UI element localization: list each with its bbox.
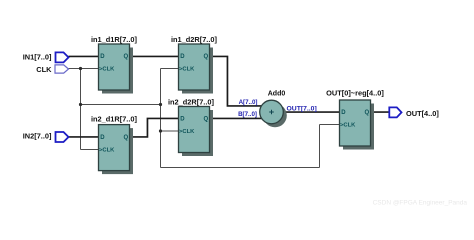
wire CLK net: vertical rise x=319.5 <box>319 125 321 168</box>
wire bus IN1 to in1_d1R.D <box>69 55 99 57</box>
svg-text:OUT[7..0]: OUT[7..0] <box>287 106 317 113</box>
wire CLK net: vertical trunk x=160 <box>160 69 162 168</box>
svg-text:IN1[7..0]: IN1[7..0] <box>23 52 52 61</box>
wire bus in1_d1R.Q to in1_d2R.D <box>130 55 179 57</box>
node junction CLK at (160,131) <box>159 129 162 132</box>
svg-text:Q: Q <box>365 110 370 116</box>
svg-text:D: D <box>341 110 346 116</box>
svg-text:Q: Q <box>204 54 209 60</box>
svg-text:Add0: Add0 <box>268 91 286 98</box>
svg-text:>CLK: >CLK <box>99 67 115 73</box>
svg-text:A[7..0]: A[7..0] <box>239 99 258 106</box>
register in2_d2R[7..0] <box>179 107 214 157</box>
wire CLK net: into in2_d2R CLK <box>161 130 179 132</box>
svg-text:CSDN @FPGA Engineer_Panda: CSDN @FPGA Engineer_Panda <box>373 200 468 207</box>
wire CLK net: bottom run y=167.5 <box>161 167 320 169</box>
wire CLK net: vertical trunk x=80 down to in2_d1R <box>80 69 82 150</box>
node junction CLK at (80,104) <box>79 103 82 106</box>
wire bus in1_d2R.Q to Add0.A <box>210 56 262 105</box>
register in1_d1R[7..0] <box>99 44 134 94</box>
svg-text:in1_d2R[7..0]: in1_d2R[7..0] <box>171 35 218 44</box>
svg-text:OUT[4..0]: OUT[4..0] <box>406 109 439 118</box>
node junction CLK at (80,69) <box>79 67 82 70</box>
svg-text:>CLK: >CLK <box>179 67 195 73</box>
wire bus in2_d1R.Q to in2_d2R.D (jog) <box>130 118 179 137</box>
svg-text:CLK: CLK <box>36 65 52 74</box>
port input IN1[7..0] <box>56 52 69 62</box>
wire CLK net: into OUT reg CLK <box>320 124 340 126</box>
node junction CLK at (160,104) <box>159 103 162 106</box>
svg-text:D: D <box>100 135 105 141</box>
port input IN2[7..0] <box>56 132 69 142</box>
svg-text:>CLK: >CLK <box>340 123 356 129</box>
register in2_d1R[7..0] <box>99 125 134 175</box>
adder Add0 <box>260 100 287 127</box>
svg-text:IN2[7..0]: IN2[7..0] <box>23 132 52 141</box>
svg-text:in2_d1R[7..0]: in2_d1R[7..0] <box>91 114 138 123</box>
wire CLK net: horizontal branch y=104 <box>81 104 161 106</box>
svg-text:Q: Q <box>124 135 129 141</box>
wire CLK net: into in1_d2R CLK <box>161 68 179 70</box>
register OUT[0]~reg[4..0] <box>340 100 375 150</box>
svg-text:>CLK: >CLK <box>179 129 195 135</box>
svg-text:>CLK: >CLK <box>99 148 115 154</box>
wire CLK net: pentagon to in1_d1R CLK <box>69 68 99 70</box>
svg-text:B[7..0]: B[7..0] <box>238 111 257 118</box>
svg-text:Q: Q <box>204 117 209 123</box>
wire CLK net: into in2_d1R CLK <box>81 149 99 151</box>
wire bus OUT reg Q to OUT port <box>371 111 389 113</box>
port input CLK <box>55 65 69 73</box>
svg-text:in1_d1R[7..0]: in1_d1R[7..0] <box>91 35 138 44</box>
svg-text:D: D <box>180 54 185 60</box>
port output OUT[4..0] <box>389 107 401 117</box>
svg-text:D: D <box>100 54 105 60</box>
register in1_d2R[7..0] <box>179 44 214 94</box>
svg-text:Q: Q <box>124 54 129 60</box>
svg-text:D: D <box>180 117 185 123</box>
wire bus IN2 to in2_d1R.D <box>69 136 99 138</box>
wire bus Add0.OUT to OUT reg D <box>283 111 339 113</box>
svg-text:OUT[0]~reg[4..0]: OUT[0]~reg[4..0] <box>326 89 384 98</box>
wire bus in2_d2R.Q to Add0.B <box>210 117 262 119</box>
svg-text:in2_d2R[7..0]: in2_d2R[7..0] <box>168 98 215 107</box>
